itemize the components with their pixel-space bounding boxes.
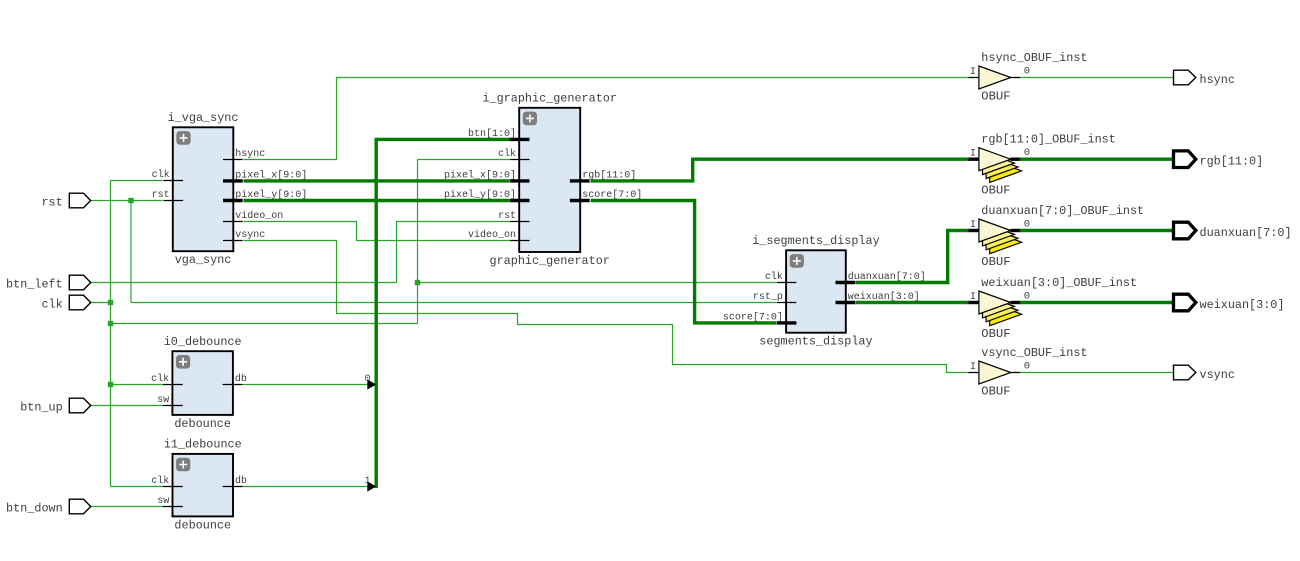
svg-text:duanxuan[7:0]: duanxuan[7:0] (848, 271, 926, 283)
wire rst net: vertical drop at x=130.7 (130, 201, 132, 303)
buffer duanxuan[7:0]_OBUF_inst triangle (979, 219, 1011, 242)
svg-text:duanxuan[7:0]_OBUF_inst: duanxuan[7:0]_OBUF_inst (981, 204, 1144, 218)
svg-text:0: 0 (1024, 361, 1030, 373)
svg-text:clk: clk (498, 148, 516, 160)
wire btn_down net: port to i1_debounce.sw (91, 506, 164, 508)
wire clk net: branch to i1_debounce.clk (111, 486, 164, 488)
svg-text:clk: clk (151, 475, 169, 487)
buffer weixuan[3:0]_OBUF_inst output stub (1010, 301, 1019, 304)
module i_segments_display pin clk (777, 282, 797, 284)
svg-text:I: I (970, 292, 976, 303)
module i0_debounce body (172, 351, 233, 415)
output port duanxuan (1174, 222, 1196, 239)
module i_graphic_generator pin pixel_x[9:0] (510, 179, 530, 182)
module i_segments_display expand icon (790, 254, 804, 268)
module i1_debounce pin sw (163, 506, 183, 508)
svg-text:i_vga_sync: i_vga_sync (168, 111, 239, 125)
svg-text:segments_display: segments_display (759, 335, 872, 349)
svg-text:weixuan[3:0]: weixuan[3:0] (848, 291, 920, 303)
wire btn_left net: riser to graphic_generator.rst (397, 222, 510, 283)
buffer hsync_OBUF_inst input stub (968, 77, 979, 79)
svg-text:btn_down: btn_down (6, 501, 63, 515)
svg-text:pixel_y[9:0]: pixel_y[9:0] (235, 189, 307, 201)
bus entry arrow bit 1 into btn[1:0] (367, 481, 376, 491)
buffer weixuan[3:0]_OBUF_inst input stub (968, 301, 979, 304)
junction clk net at clk port entry (108, 300, 113, 305)
input port btn_left (69, 275, 90, 290)
module i_vga_sync pin hsync (223, 159, 243, 161)
bus rgb[11:0]: OBUF output to port (1020, 157, 1174, 160)
svg-text:I: I (970, 149, 976, 160)
svg-text:I: I (970, 220, 976, 231)
svg-text:rst_p: rst_p (753, 292, 783, 303)
bus duanxuan[7:0]: OBUF output to port (1020, 229, 1174, 232)
buffer duanxuan[7:0]_OBUF_inst stacked bus triangles (990, 231, 1022, 254)
svg-text:I: I (970, 362, 976, 373)
svg-text:pixel_x[9:0]: pixel_x[9:0] (235, 169, 307, 181)
svg-text:vsync_OBUF_inst: vsync_OBUF_inst (981, 346, 1087, 360)
svg-text:pixel_x[9:0]: pixel_x[9:0] (444, 169, 516, 181)
svg-text:i0_debounce: i0_debounce (164, 335, 242, 349)
svg-text:btn_left: btn_left (6, 277, 63, 291)
svg-text:i_graphic_generator: i_graphic_generator (482, 92, 617, 106)
svg-text:rst: rst (498, 211, 516, 222)
module i_vga_sync pin clk (163, 180, 183, 182)
junction clk net at jog branch (108, 321, 113, 326)
output port weixuan (1174, 294, 1196, 311)
module i1_debounce expand icon (176, 458, 190, 472)
module i_graphic_generator body (519, 108, 580, 252)
svg-text:rgb[11:0]: rgb[11:0] (582, 169, 636, 181)
buffer vsync_OBUF_inst triangle (979, 361, 1011, 384)
svg-text:rgb[11:0]_OBUF_inst: rgb[11:0]_OBUF_inst (981, 133, 1116, 147)
svg-text:weixuan[3:0]_OBUF_inst: weixuan[3:0]_OBUF_inst (981, 276, 1137, 290)
input port rst (69, 193, 90, 208)
svg-text:0: 0 (1024, 219, 1030, 231)
module i_graphic_generator expand icon (523, 112, 537, 126)
svg-text:clk: clk (151, 373, 169, 385)
buffer vsync_OBUF_inst input stub (968, 372, 979, 374)
module i1_debounce pin db (223, 486, 243, 488)
wire clk net: branch to vga_sync.clk (111, 180, 163, 182)
wire vsync net: vsync_OBUF output to port (1020, 372, 1174, 374)
svg-text:0: 0 (1024, 147, 1030, 159)
svg-text:score[7:0]: score[7:0] (723, 311, 783, 323)
module i_vga_sync body (173, 127, 234, 251)
module i0_debounce pin sw (163, 405, 183, 407)
bus weixuan[3:0]: segments_display to weixuan OBUF input (856, 301, 969, 304)
module i_vga_sync pin pixel_x[9:0] (223, 179, 243, 182)
svg-text:video_on: video_on (468, 229, 516, 241)
buffer rgb[11:0]_OBUF_inst output stub (1010, 157, 1019, 160)
svg-text:duanxuan[7:0]: duanxuan[7:0] (1200, 226, 1292, 240)
svg-text:pixel_y[9:0]: pixel_y[9:0] (444, 189, 516, 201)
bus rgb[11:0]: graphic_generator.rgb to rgb OBUF input (591, 159, 969, 181)
buffer duanxuan[7:0]_OBUF_inst output stub (1010, 229, 1019, 232)
svg-text:hsync: hsync (1200, 73, 1235, 87)
module i0_debounce pin clk (163, 384, 183, 386)
buffer rgb[11:0]_OBUF_inst input stub (968, 157, 979, 160)
wire hsync net: hsync_OBUF output to port (1020, 77, 1174, 79)
junction clk net at i0_debounce branch (108, 382, 113, 387)
bus pixel_y[9:0]: vga_sync to graphic_generator (244, 199, 510, 202)
svg-text:1: 1 (364, 476, 370, 487)
module i_segments_display pin duanxuan[7:0] (836, 281, 856, 284)
svg-text:0: 0 (364, 374, 370, 385)
svg-text:score[7:0]: score[7:0] (582, 189, 642, 201)
svg-text:clk: clk (41, 297, 62, 311)
svg-text:btn[1:0]: btn[1:0] (468, 128, 516, 140)
svg-text:sw: sw (157, 496, 169, 507)
svg-text:OBUF: OBUF (981, 327, 1010, 341)
module i_graphic_generator pin btn[1:0] (510, 138, 530, 141)
wire db0 net: i0_debounce.db to btn bus bit 0 (242, 384, 369, 386)
svg-text:graphic_generator: graphic_generator (490, 254, 610, 268)
wire db1 net: i1_debounce.db to btn bus bit 1 (242, 486, 369, 488)
buffer weixuan[3:0]_OBUF_inst triangle (979, 291, 1011, 314)
wire btn_left net: port to riser (91, 282, 397, 284)
module i_graphic_generator pin video_on (510, 240, 530, 242)
svg-text:db: db (235, 475, 247, 487)
wire clk net: branch to segments_display.clk (418, 282, 777, 284)
module i0_debounce pin db (223, 384, 243, 386)
module i_graphic_generator pin rst (510, 221, 530, 223)
module i1_debounce pin clk (163, 486, 183, 488)
module i_segments_display pin rst_p (777, 302, 797, 304)
svg-text:vga_sync: vga_sync (175, 253, 232, 267)
svg-text:i1_debounce: i1_debounce (164, 438, 242, 452)
bus btn[1:0]: vertical trunk and into graphic_generator.btn (376, 139, 510, 488)
wire vsync net: vga_sync.vsync to vsync_OBUF input (244, 241, 969, 373)
buffer duanxuan[7:0]_OBUF_inst input stub (968, 229, 979, 232)
module i_segments_display pin weixuan[3:0] (836, 301, 856, 304)
input port btn_up (69, 398, 90, 413)
module i0_debounce expand icon (176, 355, 190, 369)
svg-text:OBUF: OBUF (981, 90, 1010, 104)
svg-text:0: 0 (1024, 291, 1030, 303)
svg-text:rst: rst (41, 195, 62, 209)
output port hsync (1174, 70, 1196, 85)
buffer rgb[11:0]_OBUF_inst stacked bus triangles (990, 159, 1022, 182)
svg-text:OBUF: OBUF (981, 255, 1010, 269)
buffer hsync_OBUF_inst output stub (1010, 77, 1019, 79)
wire btn_up net: port to i0_debounce.sw (91, 405, 164, 407)
wire rst net: horizontal to segments_display.rst_p (131, 302, 776, 304)
wire hsync net: vga_sync.hsync to hsync_OBUF input (244, 78, 969, 160)
bus weixuan[3:0]: OBUF output to port (1020, 301, 1174, 304)
svg-text:OBUF: OBUF (981, 184, 1010, 198)
svg-text:video_on: video_on (235, 210, 283, 222)
junction clk net at segments/graphic branch (415, 280, 420, 285)
bus entry arrow bit 0 into btn[1:0] (367, 379, 376, 389)
module i_graphic_generator pin rgb[11:0] (570, 179, 590, 182)
input port btn_down (69, 499, 90, 514)
svg-text:vsync: vsync (1200, 368, 1235, 382)
svg-text:clk: clk (152, 169, 170, 181)
svg-text:vsync: vsync (235, 230, 265, 241)
module i_graphic_generator pin clk (510, 159, 530, 161)
wire clk net: riser x=417.4 up to graphic_generator.clk (417, 160, 419, 324)
wire clk net: branch to i0_debounce.clk (111, 384, 164, 386)
buffer vsync_OBUF_inst output stub (1010, 372, 1019, 374)
buffer rgb[11:0]_OBUF_inst triangle (979, 148, 1011, 171)
wire rst net: port to vga_sync.rst (91, 200, 163, 202)
buffer hsync_OBUF_inst triangle (979, 66, 1011, 89)
svg-text:debounce: debounce (174, 518, 231, 532)
module i_graphic_generator pin pixel_y[9:0] (510, 199, 530, 202)
bus pixel_x[9:0]: vga_sync to graphic_generator (244, 179, 510, 182)
wire clk net: vertical trunk at x=110.6 (110, 181, 112, 487)
output port vsync (1174, 365, 1196, 380)
svg-text:clk: clk (765, 271, 783, 283)
module i_segments_display body (786, 250, 846, 332)
svg-text:sw: sw (157, 395, 169, 406)
module i1_debounce body (173, 454, 234, 517)
svg-text:rst: rst (152, 190, 170, 201)
module i_vga_sync pin pixel_y[9:0] (223, 199, 243, 202)
module i_vga_sync pin video_on (223, 221, 243, 223)
svg-text:hsync_OBUF_inst: hsync_OBUF_inst (981, 51, 1087, 65)
junction rst net at rst port fanout (128, 198, 133, 203)
input port clk (69, 295, 90, 310)
svg-text:rgb[11:0]: rgb[11:0] (1200, 155, 1264, 169)
module i_graphic_generator pin score[7:0] (570, 199, 590, 202)
module i_vga_sync expand icon (176, 131, 190, 145)
svg-text:I: I (970, 67, 976, 78)
wire clk net: horizontal jog at y=323.2 (111, 323, 418, 325)
module i_vga_sync pin rst (163, 200, 183, 202)
svg-text:i_segments_display: i_segments_display (752, 234, 879, 248)
wire clk net: port stub to trunk (91, 302, 111, 304)
bus score[7:0]: graphic_generator.score to segments_display.score (591, 201, 777, 323)
wire video_on net: vga_sync.video_on to graphic_generator.video_on (244, 222, 510, 241)
svg-text:btn_up: btn_up (20, 400, 62, 414)
module i_segments_display pin score[7:0] (777, 321, 797, 324)
svg-text:0: 0 (1024, 66, 1030, 78)
svg-text:OBUF: OBUF (981, 385, 1010, 399)
svg-text:weixuan[3:0]: weixuan[3:0] (1200, 298, 1285, 312)
svg-text:debounce: debounce (174, 417, 231, 431)
output port rgb (1174, 151, 1196, 168)
module i_vga_sync pin vsync (223, 240, 243, 242)
svg-text:db: db (235, 373, 247, 385)
svg-text:hsync: hsync (235, 148, 265, 160)
bus duanxuan[7:0]: segments_display to duanxuan OBUF input (856, 231, 969, 283)
buffer weixuan[3:0]_OBUF_inst stacked bus triangles (990, 303, 1022, 326)
